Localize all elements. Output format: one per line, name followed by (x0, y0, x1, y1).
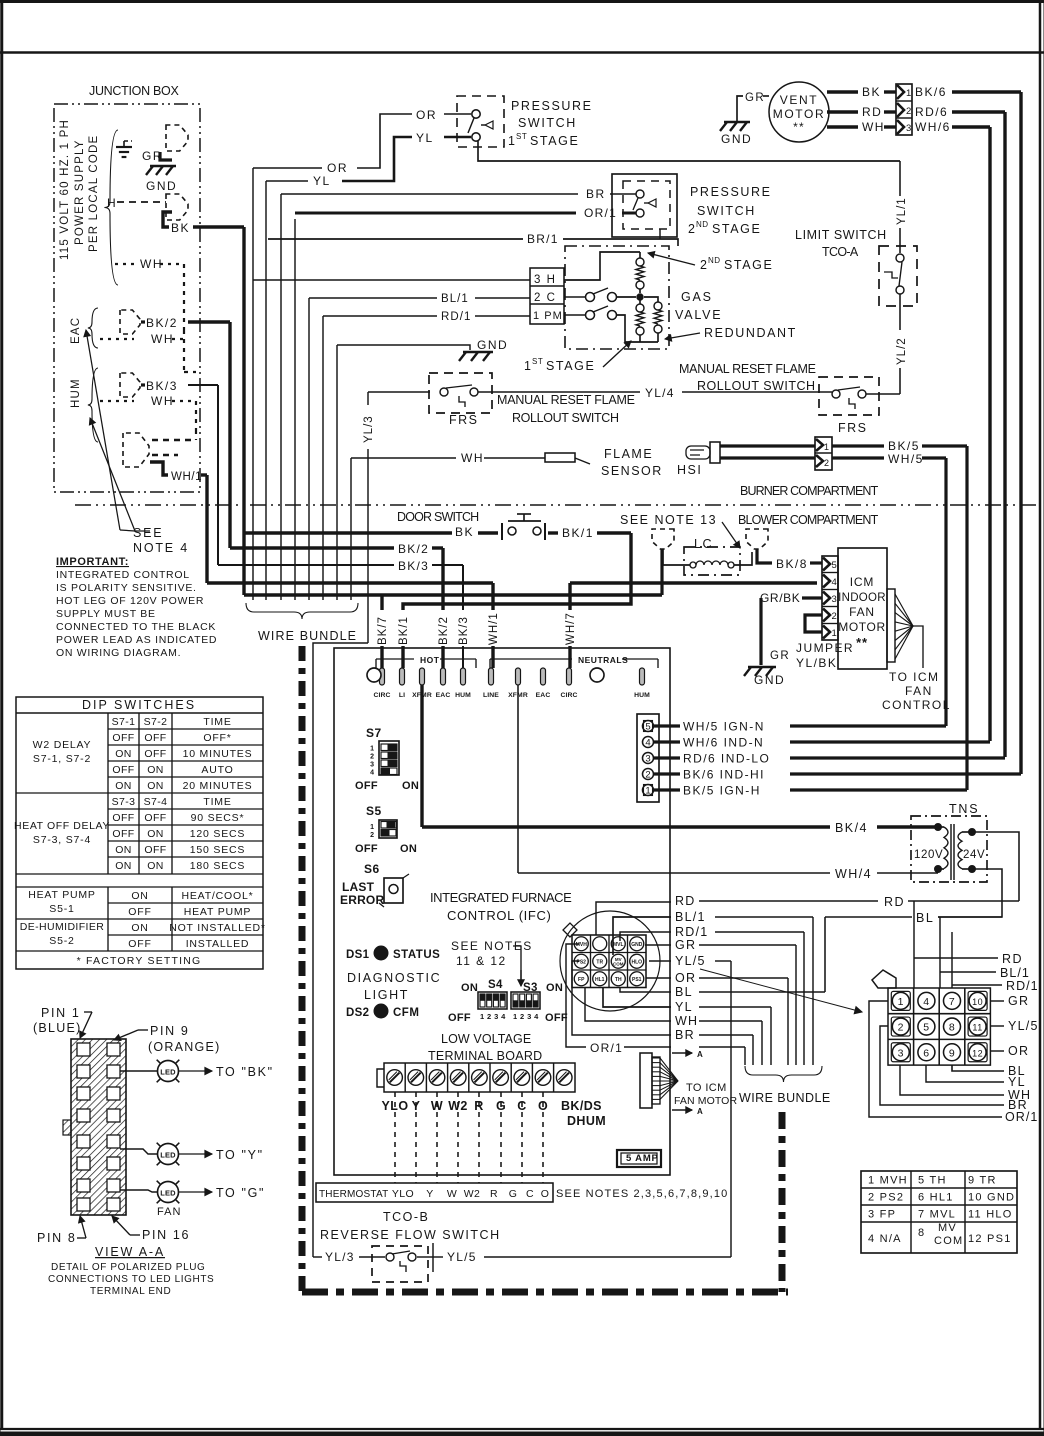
svg-text:BK/7: BK/7 (377, 616, 389, 645)
svg-text:YL/1: YL/1 (896, 197, 908, 225)
svg-text:ST: ST (516, 132, 527, 141)
svg-text:HL1: HL1 (595, 977, 605, 983)
svg-text:9 TR: 9 TR (968, 1175, 997, 1187)
svg-text:REDUNDANT: REDUNDANT (704, 326, 797, 340)
svg-text:OFF: OFF (144, 732, 166, 744)
svg-text:4: 4 (923, 996, 929, 1008)
svg-text:STATUS: STATUS (393, 949, 440, 961)
svg-text:2: 2 (645, 770, 650, 781)
svg-text:STAGE: STAGE (724, 258, 773, 272)
svg-text:4: 4 (645, 738, 650, 749)
svg-text:ON: ON (402, 780, 419, 792)
svg-text:COM: COM (934, 1235, 963, 1247)
svg-text:1: 1 (370, 824, 374, 831)
svg-text:PIN 8: PIN 8 (37, 1231, 77, 1245)
svg-text:ON: ON (147, 764, 164, 776)
svg-text:BLOWER COMPARTMENT: BLOWER COMPARTMENT (738, 513, 880, 527)
svg-text:5 TH: 5 TH (918, 1175, 947, 1187)
svg-text:WH: WH (461, 451, 484, 465)
svg-text:MV: MV (938, 1222, 957, 1234)
svg-text:DHUM: DHUM (567, 1114, 606, 1128)
svg-text:YL/5: YL/5 (447, 1250, 477, 1264)
svg-text:ON: ON (147, 780, 164, 792)
svg-text:BK/1: BK/1 (398, 616, 410, 645)
svg-text:YL/5: YL/5 (1008, 1019, 1039, 1033)
svg-text:ON WIRING DIAGRAM.: ON WIRING DIAGRAM. (56, 647, 181, 659)
svg-text:FRS: FRS (449, 413, 479, 427)
svg-text:INTEGRATED FURNACE: INTEGRATED FURNACE (430, 890, 574, 905)
svg-text:(BLUE): (BLUE) (33, 1021, 81, 1035)
svg-text:OR/1: OR/1 (590, 1041, 623, 1055)
svg-text:120V: 120V (914, 849, 943, 861)
svg-text:HUM: HUM (634, 692, 650, 699)
svg-text:GR: GR (745, 92, 765, 104)
svg-text:6 HL1: 6 HL1 (918, 1192, 954, 1204)
svg-text:DS2: DS2 (346, 1007, 369, 1019)
svg-text:BK/DS: BK/DS (561, 1099, 602, 1113)
svg-text:YL: YL (1008, 1075, 1026, 1089)
svg-text:OFF: OFF (355, 843, 378, 855)
svg-text:OFF: OFF (112, 732, 134, 744)
svg-text:YL/2: YL/2 (896, 337, 908, 365)
svg-text:SWITCH: SWITCH (697, 204, 756, 218)
svg-text:RD: RD (884, 895, 905, 909)
svg-text:WH/5: WH/5 (888, 452, 924, 466)
svg-text:DE-HUMIDIFIER: DE-HUMIDIFIER (20, 921, 105, 933)
svg-text:LC: LC (694, 537, 713, 551)
svg-text:LED: LED (160, 1189, 176, 1198)
svg-text:BL/1: BL/1 (675, 910, 706, 924)
svg-text:HUM: HUM (70, 378, 82, 408)
svg-text:BK/8: BK/8 (776, 557, 808, 571)
svg-text:STAGE: STAGE (530, 134, 579, 148)
svg-text:JUNCTION BOX: JUNCTION BOX (89, 84, 181, 98)
svg-text:INSTALLED: INSTALLED (186, 938, 250, 950)
svg-text:LED: LED (160, 1151, 176, 1160)
svg-text:PIN 1: PIN 1 (41, 1006, 81, 1020)
svg-text:OFF: OFF (448, 1012, 471, 1024)
svg-text:GR: GR (770, 650, 790, 662)
svg-text:BL: BL (916, 911, 934, 925)
svg-text:5 AMP: 5 AMP (626, 1153, 659, 1164)
svg-text:LIGHT: LIGHT (364, 988, 409, 1002)
svg-text:2 PS2: 2 PS2 (868, 1192, 904, 1204)
svg-text:STAGE: STAGE (546, 359, 595, 373)
svg-text:LAST: LAST (342, 880, 375, 894)
svg-text:CFM: CFM (393, 1007, 419, 1019)
svg-text:HEAT PUMP: HEAT PUMP (184, 906, 252, 918)
svg-text:8: 8 (918, 1227, 925, 1239)
svg-text:AUTO: AUTO (201, 764, 233, 776)
svg-text:TIME: TIME (203, 796, 231, 808)
svg-text:DS1: DS1 (346, 949, 370, 961)
svg-text:S7-1: S7-1 (112, 716, 136, 728)
svg-text:BK/3: BK/3 (146, 379, 178, 393)
svg-text:SEE: SEE (133, 526, 163, 540)
svg-text:TH: TH (615, 977, 622, 983)
svg-text:LIMIT SWITCH: LIMIT SWITCH (795, 228, 888, 242)
svg-text:NOT INSTALLED*: NOT INSTALLED* (169, 922, 266, 934)
svg-text:ICM: ICM (850, 575, 874, 589)
svg-text:A: A (697, 1050, 703, 1059)
svg-text:PIN 16: PIN 16 (142, 1228, 190, 1242)
svg-text:SUPPLY MUST BE: SUPPLY MUST BE (56, 608, 156, 620)
svg-text:7: 7 (949, 996, 955, 1008)
svg-text:BK: BK (862, 85, 881, 99)
svg-text:GND: GND (721, 132, 752, 146)
svg-text:2: 2 (824, 458, 829, 468)
svg-text:11 HLO: 11 HLO (968, 1209, 1013, 1221)
svg-text:WH/5 IGN-N: WH/5 IGN-N (683, 720, 765, 734)
svg-text:CIRC: CIRC (373, 692, 390, 699)
svg-text:BR: BR (586, 187, 606, 201)
svg-text:O: O (541, 1188, 550, 1200)
svg-text:OR/1: OR/1 (584, 206, 617, 220)
svg-text:YL/3: YL/3 (325, 1250, 355, 1264)
svg-text:WIRE BUNDLE: WIRE BUNDLE (739, 1091, 832, 1105)
svg-text:WH/7: WH/7 (565, 612, 577, 645)
svg-text:10: 10 (972, 997, 983, 1007)
svg-text:S5: S5 (366, 804, 382, 818)
svg-text:WH/4: WH/4 (835, 867, 872, 881)
svg-text:YL: YL (416, 131, 434, 145)
svg-text:ON: ON (147, 860, 164, 872)
svg-text:S7-1, S7-2: S7-1, S7-2 (33, 753, 91, 765)
svg-text:IS POLARITY SENSITIVE.: IS POLARITY SENSITIVE. (56, 582, 197, 594)
svg-text:1 MVH: 1 MVH (868, 1175, 908, 1187)
svg-text:IMPORTANT:: IMPORTANT: (56, 556, 129, 568)
svg-text:FAN MOTOR: FAN MOTOR (674, 1095, 737, 1107)
svg-text:7 MVL: 7 MVL (918, 1209, 956, 1221)
svg-text:VIEW A-A: VIEW A-A (95, 1245, 165, 1259)
svg-text:W: W (447, 1188, 457, 1200)
svg-text:OFF: OFF (128, 906, 151, 918)
svg-text:RD/1: RD/1 (441, 311, 471, 323)
svg-text:S7-4: S7-4 (144, 796, 168, 808)
svg-text:CONNECTED TO THE BLACK: CONNECTED TO THE BLACK (56, 621, 216, 633)
svg-text:ON: ON (461, 982, 478, 994)
svg-text:120 SECS: 120 SECS (190, 828, 245, 840)
svg-text:BK/3: BK/3 (458, 616, 470, 645)
svg-text:BK/6 IND-HI: BK/6 IND-HI (683, 768, 765, 782)
svg-text:TO "G": TO "G" (216, 1186, 265, 1200)
svg-text:OFF: OFF (112, 828, 134, 840)
svg-text:THERMOSTAT: THERMOSTAT (319, 1189, 388, 1200)
svg-text:S5-2: S5-2 (49, 935, 74, 947)
svg-text:EAC: EAC (436, 692, 451, 699)
svg-text:3: 3 (645, 754, 650, 765)
svg-text:2: 2 (832, 611, 837, 622)
svg-text:YL: YL (675, 1000, 693, 1014)
svg-text:4: 4 (370, 770, 374, 777)
svg-text:10 GND: 10 GND (968, 1192, 1015, 1204)
svg-text:1 PM: 1 PM (533, 310, 563, 322)
svg-text:S7-2: S7-2 (144, 716, 168, 728)
svg-text:POWER SUPPLY: POWER SUPPLY (74, 139, 86, 245)
svg-text:BK: BK (455, 525, 474, 539)
svg-text:INDOOR: INDOOR (838, 592, 886, 604)
svg-text:BR: BR (675, 1028, 695, 1042)
svg-text:MVL: MVL (613, 942, 624, 948)
svg-text:DIAGNOSTIC: DIAGNOSTIC (347, 971, 441, 985)
svg-text:WIRE BUNDLE: WIRE BUNDLE (258, 629, 358, 643)
svg-text:TCO-A: TCO-A (822, 245, 860, 259)
svg-text:3: 3 (370, 762, 374, 769)
svg-text:RD/6: RD/6 (915, 105, 948, 119)
svg-text:BK/5 IGN-H: BK/5 IGN-H (683, 784, 761, 798)
svg-text:TNS: TNS (949, 802, 979, 816)
svg-text:GND: GND (146, 179, 177, 193)
svg-text:WH/1: WH/1 (488, 612, 500, 645)
svg-text:YLO: YLO (392, 1188, 414, 1200)
svg-text:OFF: OFF (144, 748, 166, 760)
svg-text:OR: OR (675, 971, 696, 985)
svg-text:TO ICM: TO ICM (686, 1082, 727, 1094)
svg-text:S5-1: S5-1 (49, 903, 74, 915)
svg-text:ON: ON (115, 860, 132, 872)
svg-text:TO "Y": TO "Y" (216, 1148, 264, 1162)
svg-text:PS1: PS1 (632, 977, 642, 983)
svg-text:11: 11 (972, 1023, 982, 1033)
svg-text:ND: ND (708, 256, 721, 265)
svg-text:5: 5 (832, 560, 837, 571)
svg-text:NOTE 4: NOTE 4 (133, 541, 189, 555)
svg-text:CONNECTIONS TO LED LIGHTS: CONNECTIONS TO LED LIGHTS (48, 1274, 214, 1285)
svg-text:ON: ON (115, 844, 132, 856)
svg-text:FLAME: FLAME (604, 447, 653, 461)
svg-text:BL/1: BL/1 (1000, 966, 1030, 980)
svg-text:ON: ON (131, 890, 148, 902)
svg-text:EAC: EAC (70, 317, 82, 344)
svg-text:2: 2 (370, 754, 374, 761)
svg-text:1: 1 (906, 88, 911, 99)
svg-text:OR/1: OR/1 (1005, 1110, 1038, 1124)
svg-text:3 FP: 3 FP (868, 1209, 896, 1221)
svg-text:2: 2 (370, 832, 374, 839)
svg-text:FAN: FAN (849, 605, 875, 619)
svg-text:POWER LEAD AS INDICATED: POWER LEAD AS INDICATED (56, 634, 217, 646)
svg-text:PRESSURE: PRESSURE (690, 185, 772, 199)
svg-text:BK/6: BK/6 (915, 85, 947, 99)
svg-text:BK/2: BK/2 (146, 316, 178, 330)
svg-text:H: H (107, 196, 117, 210)
svg-text:OFF: OFF (144, 844, 166, 856)
svg-text:180 SECS: 180 SECS (190, 860, 245, 872)
svg-text:BK/3: BK/3 (398, 559, 429, 573)
svg-text:BL: BL (675, 985, 693, 999)
svg-text:2: 2 (906, 106, 911, 117)
svg-text:BURNER COMPARTMENT: BURNER COMPARTMENT (740, 484, 880, 498)
svg-text:LOW VOLTAGE: LOW VOLTAGE (441, 1032, 533, 1046)
svg-text:HLO: HLO (631, 959, 642, 965)
svg-text:RD/1: RD/1 (1006, 979, 1039, 993)
svg-text:R: R (490, 1188, 498, 1200)
svg-text:TCO-B: TCO-B (383, 1210, 429, 1224)
svg-text:5: 5 (923, 1022, 929, 1034)
svg-text:NEUTRALS: NEUTRALS (578, 655, 628, 665)
svg-text:4 N/A: 4 N/A (868, 1233, 902, 1245)
svg-text:1: 1 (824, 442, 829, 452)
svg-text:OFF: OFF (112, 764, 134, 776)
svg-text:S4: S4 (488, 979, 503, 991)
svg-text:DETAIL OF POLARIZED PLUG: DETAIL OF POLARIZED PLUG (51, 1262, 205, 1273)
svg-text:20 MINUTES: 20 MINUTES (183, 780, 253, 792)
svg-text:HEAT PUMP: HEAT PUMP (28, 889, 96, 901)
svg-text:TO ICM: TO ICM (889, 670, 939, 684)
svg-text:ON: ON (115, 780, 132, 792)
svg-text:OFF: OFF (128, 938, 151, 950)
svg-text:1: 1 (645, 786, 650, 797)
svg-text:EAC: EAC (536, 692, 551, 699)
svg-text:S7-3: S7-3 (112, 796, 136, 808)
svg-text:CIRC: CIRC (560, 692, 577, 699)
svg-text:BL/1: BL/1 (441, 293, 469, 305)
svg-text:CONTROL (IFC): CONTROL (IFC) (447, 908, 553, 923)
svg-text:TR: TR (596, 959, 603, 965)
svg-text:ERROR: ERROR (340, 893, 384, 907)
svg-text:10 MINUTES: 10 MINUTES (183, 748, 253, 760)
svg-text:SWITCH: SWITCH (518, 116, 577, 130)
svg-text:PS2: PS2 (577, 959, 587, 965)
svg-text:FAN: FAN (905, 684, 933, 698)
svg-text:BK/5: BK/5 (888, 439, 920, 453)
svg-text:115 VOLT 60 HZ. 1 PH: 115 VOLT 60 HZ. 1 PH (59, 119, 71, 260)
svg-text:OFF*: OFF* (203, 732, 231, 744)
svg-text:3: 3 (906, 123, 911, 134)
svg-text:* FACTORY SETTING: * FACTORY SETTING (77, 955, 202, 967)
svg-text:CONTROL: CONTROL (882, 698, 951, 712)
svg-text:OR: OR (416, 108, 437, 122)
svg-text:1: 1 (898, 996, 904, 1008)
svg-text:OFF: OFF (355, 780, 378, 792)
svg-text:HOT LEG OF 120V POWER: HOT LEG OF 120V POWER (56, 595, 204, 607)
svg-text:BK/2: BK/2 (438, 616, 450, 645)
svg-text:HEAT/COOL*: HEAT/COOL* (182, 890, 254, 902)
svg-text:WH/6: WH/6 (915, 120, 951, 134)
svg-text:W2 DELAY: W2 DELAY (33, 739, 92, 751)
svg-text:3 H: 3 H (534, 274, 556, 286)
svg-text:HUM: HUM (455, 692, 471, 699)
svg-text:TO "BK": TO "BK" (216, 1065, 274, 1079)
svg-text:PER LOCAL CODE: PER LOCAL CODE (88, 135, 100, 252)
svg-text:12 PS1: 12 PS1 (968, 1233, 1012, 1245)
svg-text:LINE: LINE (483, 692, 499, 699)
svg-text:MANUAL RESET FLAME: MANUAL RESET FLAME (497, 393, 636, 407)
svg-text:GND: GND (631, 942, 643, 948)
svg-text:SEE NOTE 13: SEE NOTE 13 (620, 513, 717, 527)
svg-text:REVERSE FLOW SWITCH: REVERSE FLOW SWITCH (320, 1228, 501, 1242)
svg-text:JUMPER: JUMPER (796, 641, 854, 655)
svg-text:VALVE: VALVE (675, 308, 722, 322)
svg-text:MANUAL RESET FLAME: MANUAL RESET FLAME (679, 362, 817, 376)
svg-text:ROLLOUT SWITCH: ROLLOUT SWITCH (512, 411, 620, 425)
svg-text:WH/6 IND-N: WH/6 IND-N (683, 736, 764, 750)
svg-text:ON: ON (147, 828, 164, 840)
svg-text:GR/BK: GR/BK (760, 591, 800, 605)
svg-text:BK/2: BK/2 (398, 542, 429, 556)
svg-text:GR: GR (675, 938, 696, 952)
svg-text:OR: OR (327, 161, 348, 175)
svg-text:WH: WH (862, 120, 885, 134)
svg-text:G: G (509, 1188, 518, 1200)
svg-text:1 2 3 4: 1 2 3 4 (480, 1012, 506, 1021)
svg-text:ON: ON (400, 843, 417, 855)
svg-text:1 2 3 4: 1 2 3 4 (513, 1012, 539, 1021)
svg-text:FAN: FAN (157, 1206, 182, 1218)
svg-text:RD: RD (862, 105, 882, 119)
svg-text:4: 4 (832, 577, 837, 588)
svg-text:12: 12 (972, 1048, 983, 1058)
svg-text:RD/6 IND-LO: RD/6 IND-LO (683, 752, 770, 766)
svg-text:**: ** (856, 635, 868, 650)
svg-text:WH: WH (675, 1014, 698, 1028)
svg-text:90 SECS*: 90 SECS* (191, 812, 245, 824)
svg-text:MOTOR: MOTOR (773, 107, 825, 121)
svg-text:Y: Y (426, 1188, 433, 1200)
svg-text:HEAT OFF DELAY: HEAT OFF DELAY (14, 820, 110, 832)
svg-text:2 C: 2 C (534, 292, 556, 304)
svg-text:(ORANGE): (ORANGE) (148, 1040, 221, 1054)
svg-text:SENSOR: SENSOR (601, 464, 663, 478)
svg-text:DIP SWITCHES: DIP SWITCHES (82, 698, 196, 712)
svg-text:6: 6 (923, 1047, 929, 1059)
svg-text:OFF: OFF (545, 1012, 568, 1024)
svg-text:2: 2 (898, 1022, 904, 1034)
svg-text:GR: GR (1008, 994, 1029, 1008)
svg-text:HSI: HSI (677, 463, 702, 477)
svg-text:24V: 24V (963, 849, 985, 861)
svg-text:WH: WH (151, 394, 174, 408)
svg-text:WH/1: WH/1 (171, 471, 202, 483)
svg-text:STAGE: STAGE (712, 222, 761, 236)
svg-text:OFF: OFF (144, 812, 166, 824)
svg-text:MOTOR: MOTOR (838, 620, 885, 634)
svg-text:FRS: FRS (838, 421, 868, 435)
svg-text:GND: GND (477, 338, 508, 352)
svg-text:YL/3: YL/3 (363, 415, 375, 443)
svg-text:RD: RD (675, 894, 696, 908)
svg-text:INTEGRATED CONTROL: INTEGRATED CONTROL (56, 569, 190, 581)
svg-text:WH: WH (151, 332, 174, 346)
svg-text:OFF: OFF (112, 812, 134, 824)
svg-text:FP: FP (578, 977, 585, 983)
svg-text:3: 3 (898, 1047, 904, 1059)
svg-text:RD: RD (1002, 952, 1023, 966)
svg-text:ST: ST (532, 357, 543, 366)
svg-text:1: 1 (832, 628, 837, 639)
svg-text:COM: COM (613, 961, 624, 966)
svg-text:GAS: GAS (681, 290, 713, 304)
svg-text:BR/1: BR/1 (527, 232, 559, 246)
svg-text:BK/1: BK/1 (562, 526, 594, 540)
svg-text:LED: LED (160, 1068, 176, 1077)
svg-text:ON: ON (131, 922, 148, 934)
svg-text:PIN 9: PIN 9 (150, 1024, 190, 1038)
svg-text:BK: BK (171, 221, 190, 235)
svg-text:WH: WH (140, 257, 163, 271)
svg-text:S7-3, S7-4: S7-3, S7-4 (33, 834, 91, 846)
svg-text:RD/1: RD/1 (675, 925, 708, 939)
svg-text:W2: W2 (464, 1188, 481, 1200)
svg-text:GND: GND (754, 673, 785, 687)
svg-text:1: 1 (370, 746, 374, 753)
svg-text:YL/4: YL/4 (645, 386, 675, 400)
svg-text:TERMINAL END: TERMINAL END (90, 1286, 171, 1297)
svg-text:OR: OR (1008, 1044, 1029, 1058)
svg-text:YL: YL (313, 174, 331, 188)
svg-text:ON: ON (115, 748, 132, 760)
svg-text:150 SECS: 150 SECS (190, 844, 245, 856)
